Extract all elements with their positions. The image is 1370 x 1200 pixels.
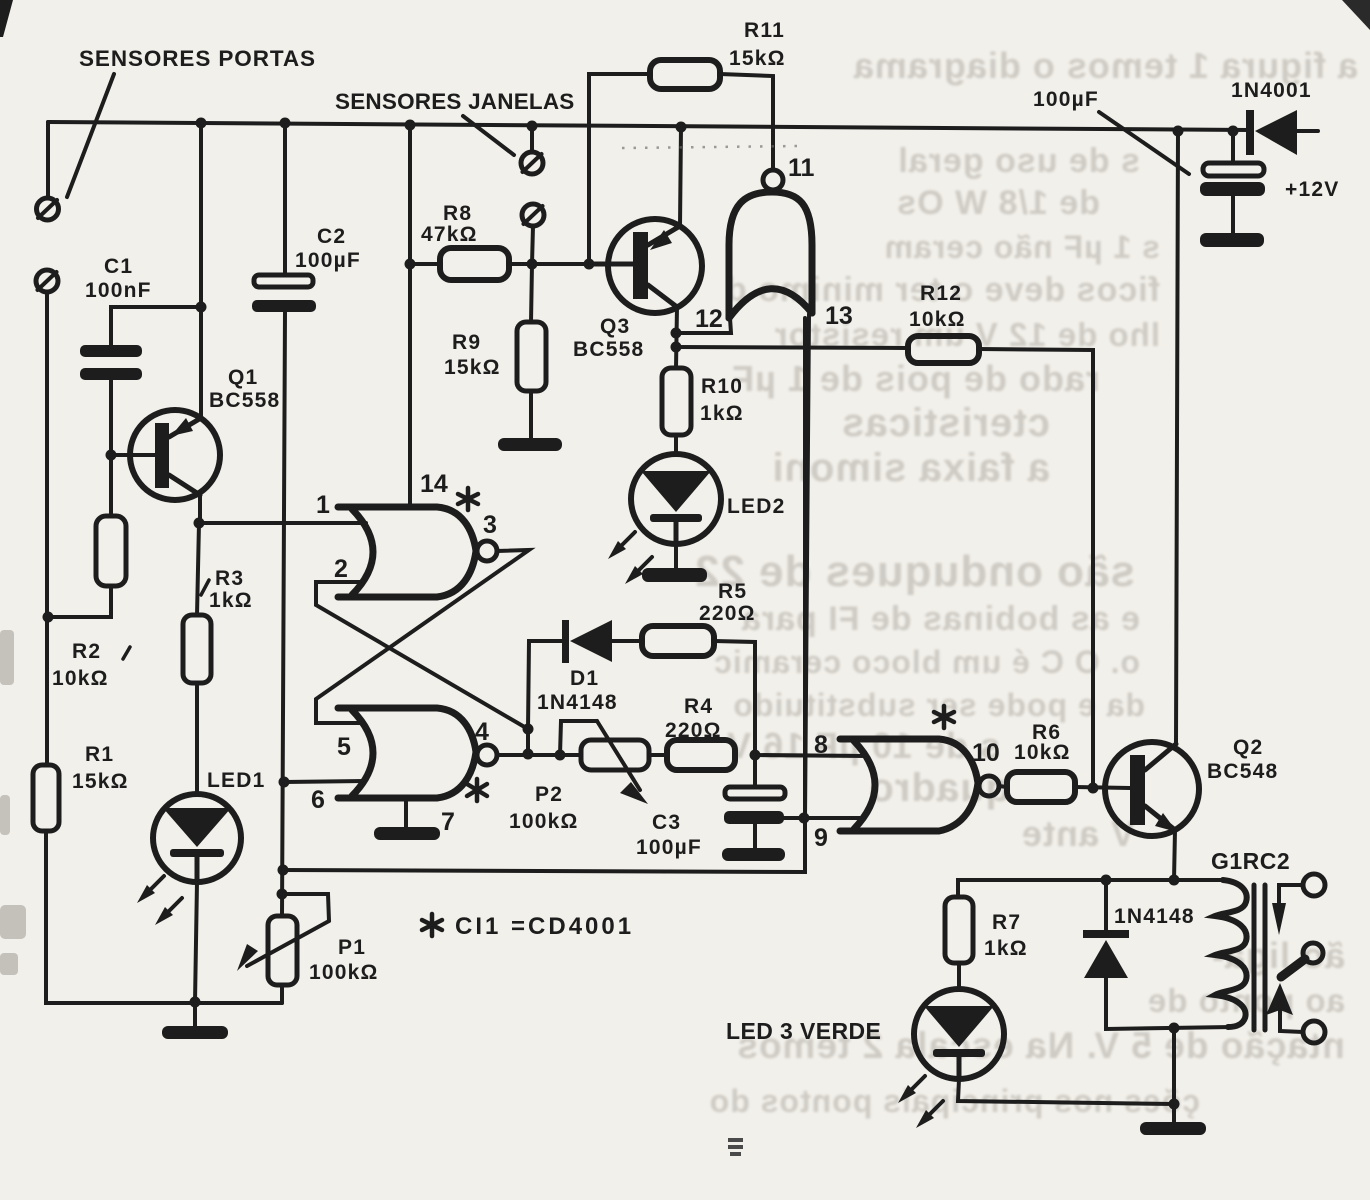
svg-text:a faixa simoni: a faixa simoni xyxy=(771,446,1050,490)
wire R10 to LED2 xyxy=(674,435,678,455)
node rail x285 xyxy=(280,118,291,129)
wire Q3 emitter to rail xyxy=(680,127,681,226)
left edge faint marks xyxy=(0,630,26,975)
svg-text:1kΩ: 1kΩ xyxy=(700,402,744,425)
wire relay top xyxy=(958,880,1223,897)
svg-text:R7: R7 xyxy=(992,911,1021,934)
transistor Q2 BC548 xyxy=(1105,742,1199,836)
scan corner mark xyxy=(0,0,13,37)
svg-text:R9: R9 xyxy=(452,331,481,354)
svg-text:Q3: Q3 xyxy=(600,315,630,338)
wire rail to R8 column xyxy=(408,125,412,507)
wire C1 top to rail column xyxy=(111,307,201,345)
svg-text:LED1: LED1 xyxy=(207,769,265,792)
node bottom right xyxy=(1169,1099,1180,1110)
wire T4 to R8 right node xyxy=(531,226,533,322)
wire R3 to LED1 xyxy=(195,683,199,794)
svg-text:de 1/8 W Os: de 1/8 W Os xyxy=(896,184,1100,222)
NOR gate U1D pins 11 12 13 xyxy=(729,170,812,318)
node C1 top rail column xyxy=(196,302,207,313)
svg-text:100µF: 100µF xyxy=(636,836,702,859)
potentiometer P1 xyxy=(237,894,329,985)
node rail x681 xyxy=(676,122,687,133)
wire R8 leads xyxy=(410,262,440,266)
node pin6 junction xyxy=(279,777,290,788)
asterisk gate A xyxy=(458,488,478,510)
wire left column T2 down to bottom xyxy=(45,292,49,765)
capacitor 100uF supply xyxy=(1200,131,1265,196)
wire R1 bottom to bottom-left wire xyxy=(46,831,282,1003)
wire LED1 bottom xyxy=(195,882,197,1002)
diode 1N4148 relay xyxy=(1083,880,1232,1029)
tick R2 xyxy=(123,647,130,659)
wire pin13 column down xyxy=(805,314,809,818)
node rail x410 xyxy=(405,120,416,131)
svg-text:1kΩ: 1kΩ xyxy=(209,589,253,612)
wire Q2 emitter down xyxy=(1174,830,1175,880)
ground under LED1 xyxy=(162,1003,228,1039)
node LED1 bottom junction xyxy=(190,997,201,1008)
svg-text:8: 8 xyxy=(814,731,828,759)
wire Q2 collector up to rail xyxy=(1176,131,1178,744)
svg-text:15kΩ: 15kΩ xyxy=(444,356,501,379)
svg-text:5: 5 xyxy=(337,733,351,761)
svg-text:são onduques de 22: são onduques de 22 xyxy=(694,547,1135,596)
wire rail to terminal janelas xyxy=(530,126,534,152)
svg-text:47kΩ: 47kΩ xyxy=(421,223,478,246)
svg-text:ções nos principais pontos do: ções nos principais pontos do xyxy=(709,1083,1200,1119)
NOR gate U1C pins 8 9 10 xyxy=(840,739,999,831)
svg-text:Q1: Q1 xyxy=(228,366,258,389)
node pin9 pin13 C3 junction xyxy=(799,813,810,824)
svg-text:cteristicas: cteristicas xyxy=(841,401,1050,445)
wire top supply rail xyxy=(48,122,1249,130)
svg-text:e as bobinas de FI para: e as bobinas de FI para xyxy=(741,600,1140,638)
svg-text:100µF: 100µF xyxy=(1033,88,1099,111)
svg-text:2: 2 xyxy=(334,555,348,583)
transistor Q1 BC558 xyxy=(130,410,220,500)
LED1 xyxy=(153,794,241,882)
NOR gate U1B pins 5 6 4 xyxy=(338,708,497,798)
node R8 right xyxy=(527,259,538,270)
wire collector node to gate A input 1 xyxy=(199,521,366,525)
svg-text:R5: R5 xyxy=(718,580,747,603)
capacitor C3 electrolytic xyxy=(722,755,804,861)
LED3 light arrows xyxy=(898,1076,943,1128)
ground under 100uF xyxy=(1200,196,1264,247)
svg-text:o. O C é um bloco ceramic: o. O C é um bloco ceramic xyxy=(713,644,1140,680)
svg-text:220Ω: 220Ω xyxy=(665,719,722,742)
node Q2 base xyxy=(1088,783,1099,794)
wire gateA output to cross couple to pin5 xyxy=(316,550,529,723)
relay G1RC2 coil xyxy=(1215,880,1247,1027)
svg-text:1N4001: 1N4001 xyxy=(1231,79,1312,102)
node Q2 emitter relay wire xyxy=(1169,875,1180,886)
LED2 xyxy=(631,454,721,544)
svg-text:BC558: BC558 xyxy=(573,338,644,361)
svg-text:1N4148: 1N4148 xyxy=(1114,905,1195,928)
svg-text:15kΩ: 15kΩ xyxy=(729,47,786,70)
faint dotted scan trail xyxy=(622,146,800,148)
svg-text:10kΩ: 10kΩ xyxy=(909,308,966,331)
svg-text:100µF: 100µF xyxy=(295,249,361,272)
wire R12 right to Q2 base xyxy=(979,349,1093,788)
terminal T3 sensores janelas xyxy=(521,152,543,174)
resistor R10 xyxy=(662,368,691,435)
svg-text:SENSORES PORTAS: SENSORES PORTAS xyxy=(79,46,316,71)
node D1 junction xyxy=(523,724,534,735)
svg-text:LED 3 VERDE: LED 3 VERDE xyxy=(726,1018,881,1044)
transistor Q3 BC558 xyxy=(589,219,702,313)
node long wire junction xyxy=(278,865,289,876)
terminal T2 sensores portas xyxy=(36,270,58,292)
wire R5 right down to R4 node xyxy=(714,641,755,755)
wire emitter node to bottom node xyxy=(1172,1028,1176,1104)
wire collector node down to R3 xyxy=(197,523,199,615)
svg-text:11: 11 xyxy=(788,154,815,182)
node rail x532 xyxy=(527,121,538,132)
label CI1 CD4001 xyxy=(422,914,442,936)
svg-text:R12: R12 xyxy=(920,282,962,305)
svg-text:R10: R10 xyxy=(701,375,743,398)
svg-text:15kΩ: 15kΩ xyxy=(72,770,129,793)
leader sensores janelas xyxy=(463,116,514,155)
asterisk gate C xyxy=(934,706,954,728)
svg-text:14: 14 xyxy=(420,470,448,498)
wire D1 branch up xyxy=(528,641,563,729)
node pin4 wire junction xyxy=(523,749,534,760)
resistor R1 xyxy=(33,765,59,831)
svg-text:12: 12 xyxy=(695,305,723,333)
svg-text:3: 3 xyxy=(483,511,497,539)
svg-text:9: 9 xyxy=(814,824,828,852)
svg-text:s de uso geral: s de uso geral xyxy=(897,142,1140,180)
svg-text:100kΩ: 100kΩ xyxy=(309,961,379,984)
terminal T1 sensores portas xyxy=(37,198,59,220)
svg-text:D1: D1 xyxy=(570,667,599,690)
tick R3 xyxy=(201,580,209,595)
wire long y870 from pin6 column to pin13 column xyxy=(283,318,805,872)
wire C1 bottom to Q1 base xyxy=(111,380,155,455)
node rail x1233 xyxy=(1228,126,1239,137)
svg-text:R11: R11 xyxy=(744,19,785,42)
node relay coil bottom xyxy=(1169,1023,1180,1034)
capacitor C1 xyxy=(80,345,142,380)
scan mark equals sign xyxy=(728,1138,743,1156)
resistor R9 xyxy=(517,322,546,391)
wire LED3 bottom to ground node xyxy=(958,1079,1174,1104)
LED1 light arrows xyxy=(137,876,182,925)
capacitor C2 electrolytic xyxy=(252,275,316,312)
scan corner mark top right xyxy=(1342,0,1370,30)
wire left drop to terminal T1 xyxy=(46,122,50,198)
LED2 light arrows xyxy=(608,532,652,584)
svg-text:10kΩ: 10kΩ xyxy=(1014,741,1071,764)
svg-text:R3: R3 xyxy=(215,567,244,590)
ground under R9 xyxy=(498,391,562,451)
svg-text:R1: R1 xyxy=(85,743,114,766)
svg-text:P2: P2 xyxy=(535,783,563,806)
svg-text:C3: C3 xyxy=(652,811,681,834)
svg-text:100nF: 100nF xyxy=(85,279,152,302)
node R4 right C3 top xyxy=(750,750,761,761)
node Q1 base xyxy=(106,450,117,461)
wire R6 to Q2 base xyxy=(1075,787,1130,788)
leader 100uF xyxy=(1099,112,1189,174)
resistor R7 xyxy=(945,897,973,963)
wire pin6 xyxy=(284,781,365,782)
svg-text:quadro: quadro xyxy=(868,766,1010,810)
wire D1 junction down to pin4 wire xyxy=(526,729,530,754)
leader sensores portas xyxy=(67,74,114,197)
svg-text:G1RC2: G1RC2 xyxy=(1211,848,1290,874)
svg-text:s 1 µF não ceram: s 1 µF não ceram xyxy=(884,229,1160,265)
asterisk gate B xyxy=(467,779,487,801)
svg-text:P1: P1 xyxy=(338,936,366,959)
potentiometer P2 xyxy=(560,721,649,804)
wire pin9 xyxy=(804,816,864,820)
resistor R12 xyxy=(908,336,979,363)
svg-text:+12V: +12V xyxy=(1285,178,1339,201)
svg-text:LED2: LED2 xyxy=(727,495,785,518)
diode D1 1N4148 xyxy=(562,620,642,663)
relay contact bottom terminal with arrow xyxy=(1266,983,1325,1043)
svg-text:1kΩ: 1kΩ xyxy=(984,937,1028,960)
node collector pin12 xyxy=(671,328,682,339)
ground bottom right xyxy=(1140,1104,1206,1135)
relay contact top terminal xyxy=(1272,874,1325,935)
resistor R3 xyxy=(183,615,211,683)
node R2 bottom junction xyxy=(43,612,54,623)
resistor R11 xyxy=(650,60,720,89)
svg-text:10kΩ: 10kΩ xyxy=(52,667,109,690)
wire gateB output pin4 to P2 xyxy=(497,753,581,757)
ground under LED2 xyxy=(642,544,707,582)
NOR gate U1A pins 1 2 3 xyxy=(338,507,497,597)
resistor R4 xyxy=(667,740,735,770)
svg-text:4: 4 xyxy=(475,718,489,746)
svg-text:1N4148: 1N4148 xyxy=(537,691,618,714)
resistor R5 xyxy=(642,626,714,656)
diode 1N4001 xyxy=(1246,110,1297,155)
svg-text:13: 13 xyxy=(825,302,853,330)
resistor R6 xyxy=(1007,772,1075,802)
wire rail stub after diode to +12V input xyxy=(1295,129,1318,133)
svg-text:CI1 =CD4001: CI1 =CD4001 xyxy=(455,913,634,940)
terminal T4 sensores janelas xyxy=(522,204,544,226)
resistor R2 xyxy=(96,516,126,586)
ground pin7 xyxy=(374,798,440,840)
resistor R8 xyxy=(440,248,509,280)
wire R4 node to gate C input 8 xyxy=(755,755,867,756)
wire P1 bottom xyxy=(280,985,284,1003)
svg-text:100kΩ: 100kΩ xyxy=(509,810,579,833)
wire R7 to LED3 xyxy=(957,963,961,990)
svg-text:10: 10 xyxy=(972,739,1000,767)
wire C2 bottom long column to P1 xyxy=(282,312,285,916)
wire pin12 jog xyxy=(676,318,731,333)
svg-text:R4: R4 xyxy=(684,695,713,718)
svg-text:220Ω: 220Ω xyxy=(699,602,756,625)
wire gateA input2 cross couple from gateB output xyxy=(316,582,528,729)
bleedthrough placeholder xyxy=(0,0,1,1)
node 1N4148 top xyxy=(1101,875,1112,886)
svg-text:7: 7 xyxy=(441,808,455,836)
relay core lines xyxy=(1254,885,1265,1030)
relay contact middle terminal with lever xyxy=(1281,943,1323,977)
svg-text:SENSORES JANELAS: SENSORES JANELAS xyxy=(335,89,575,114)
node Q3 base xyxy=(584,259,595,270)
wire Q1 collector down to node xyxy=(198,495,202,523)
svg-text:R2: R2 xyxy=(72,640,101,663)
svg-text:Q2: Q2 xyxy=(1233,736,1263,759)
wire R12 lead left xyxy=(676,347,908,348)
node Q1 collector xyxy=(194,518,205,529)
wire rail to Q1 emitter vertical xyxy=(199,122,203,417)
wire R11 right to gate D output bubble xyxy=(720,74,773,169)
wire Q1 base column xyxy=(109,455,113,516)
svg-text:R8: R8 xyxy=(443,202,472,225)
wire gateC output to R6 xyxy=(999,786,1007,787)
svg-text:C1: C1 xyxy=(104,255,133,278)
node rail x201 xyxy=(196,118,207,129)
wire R2 bottom to left column xyxy=(48,586,111,617)
node collector R12 xyxy=(671,342,682,353)
node P1 wiper junction xyxy=(277,889,288,900)
svg-text:1: 1 xyxy=(316,491,330,519)
node rail x1178 xyxy=(1173,126,1184,137)
wire rail to C2 xyxy=(283,122,287,275)
LED3 xyxy=(914,989,1004,1079)
wire Q3 collector down xyxy=(676,307,677,368)
wire R11 left to Q3 base node xyxy=(589,74,650,264)
svg-text:6: 6 xyxy=(311,786,325,814)
svg-text:BC558: BC558 xyxy=(209,389,280,412)
svg-text:BC548: BC548 xyxy=(1207,760,1278,783)
wire P2 to R4 xyxy=(649,753,667,757)
node R8 left xyxy=(405,259,416,270)
node P2 wiper tie xyxy=(555,750,566,761)
svg-text:C2: C2 xyxy=(317,225,346,248)
